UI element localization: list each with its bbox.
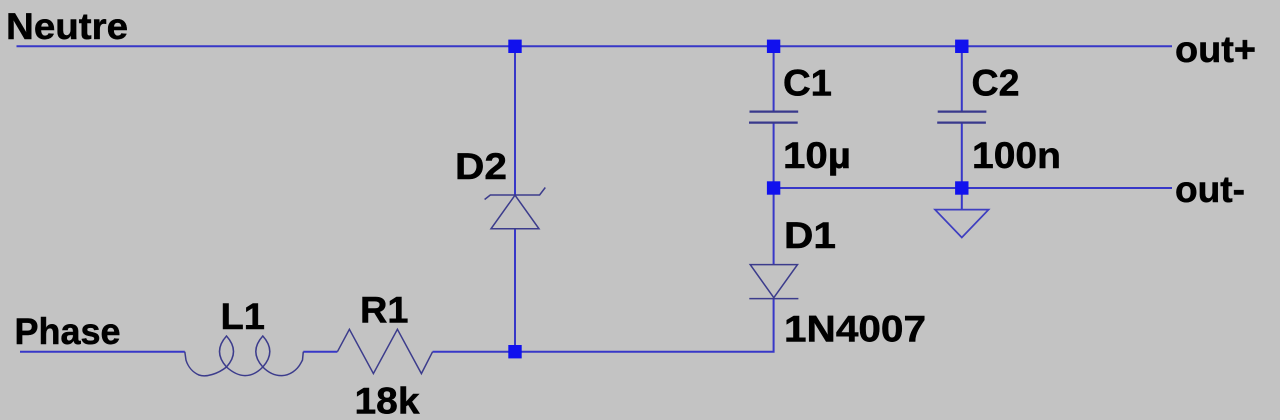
- wire Phase left segment: [20, 351, 185, 353]
- wire C1 top stub: [773, 46, 775, 111]
- svg-text:D2: D2: [455, 146, 507, 187]
- wire R1 to corner and up to D1: [433, 299, 774, 352]
- svg-text:18k: 18k: [355, 380, 420, 420]
- capacitor C1: [749, 112, 798, 123]
- diode D1: [749, 265, 798, 299]
- svg-text:C1: C1: [783, 63, 832, 104]
- svg-text:10µ: 10µ: [783, 135, 851, 176]
- svg-text:out-: out-: [1175, 169, 1245, 210]
- svg-text:R1: R1: [360, 289, 409, 330]
- wire C2 bottom stub: [961, 123, 963, 188]
- svg-text:Neutre: Neutre: [6, 6, 128, 47]
- wire D2 top stub: [514, 46, 516, 195]
- wire out- rail: [774, 187, 1172, 189]
- wire Neutre top rail: [17, 45, 1173, 47]
- wire C1 bottom stub: [773, 123, 775, 188]
- wire D1 anode stub: [773, 188, 775, 265]
- ground: [935, 210, 989, 238]
- node junction out- C2: [955, 181, 968, 194]
- inductor L1: [185, 336, 303, 376]
- wire between L1 and R1: [303, 351, 337, 353]
- resistor R1: [337, 329, 432, 373]
- svg-text:Phase: Phase: [15, 311, 121, 352]
- diode D2 (zener): [485, 188, 546, 229]
- svg-text:out+: out+: [1175, 29, 1256, 70]
- wire ground stub: [961, 188, 963, 210]
- svg-text:D1: D1: [784, 215, 836, 256]
- wire C2 top stub: [961, 46, 963, 111]
- node junction out- C1: [767, 181, 780, 194]
- svg-text:L1: L1: [221, 296, 266, 337]
- node junction bottom D2: [508, 345, 521, 358]
- wire D2 bottom stub: [514, 229, 516, 352]
- node junction top C1: [767, 40, 780, 53]
- node junction top D2: [508, 40, 521, 53]
- svg-text:100n: 100n: [972, 135, 1061, 176]
- capacitor C2: [937, 112, 986, 123]
- svg-text:1N4007: 1N4007: [784, 309, 926, 350]
- node junction top C2: [955, 40, 968, 53]
- svg-text:C2: C2: [972, 63, 1020, 104]
